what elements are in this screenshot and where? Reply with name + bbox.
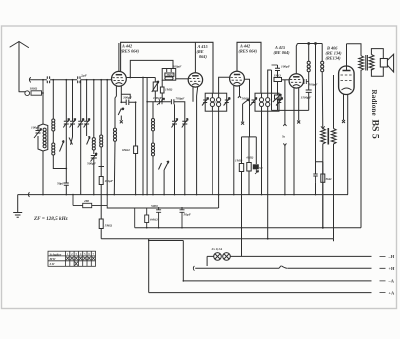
variable capacitor 4 xyxy=(84,80,90,136)
svg-text:500pF: 500pF xyxy=(87,162,97,166)
svg-text:500pF: 500pF xyxy=(309,83,319,87)
svg-text:700pF: 700pF xyxy=(176,97,186,101)
svg-text:2: 2 xyxy=(71,252,73,256)
capacitor 300pF xyxy=(121,100,135,106)
svg-text:(RE 064): (RE 064) xyxy=(274,50,291,55)
svg-text:100pF: 100pF xyxy=(31,126,41,130)
svg-text:Schalter: Schalter xyxy=(50,252,62,256)
svg-text:–A: –A xyxy=(388,279,395,284)
x mark V1 lead xyxy=(120,116,123,124)
svg-text:0,1μF: 0,1μF xyxy=(105,179,114,183)
text labels xyxy=(121,44,343,61)
LC loop left branch trimmer cap xyxy=(34,124,43,151)
jack col284 xyxy=(283,80,286,126)
feed col248 to bracket xyxy=(244,79,249,137)
trimmer cap 500pF xyxy=(91,153,97,195)
svg-text:(RE134): (RE134) xyxy=(326,56,342,61)
svg-text:2x 0,1A: 2x 0,1A xyxy=(211,247,223,251)
tube V2 envelope xyxy=(188,73,202,87)
battery line2 xyxy=(195,267,371,269)
svg-text:Radione: Radione xyxy=(370,90,378,116)
lamp 1 xyxy=(214,253,222,261)
IFT1 coils xyxy=(212,93,218,111)
IFT1 outer frame xyxy=(205,93,227,111)
svg-text:5: 5 xyxy=(84,252,86,256)
svg-text:100pF: 100pF xyxy=(281,65,291,69)
svg-text:1500pF: 1500pF xyxy=(301,96,312,100)
rail connector xyxy=(28,192,29,197)
output tube internals xyxy=(343,70,351,72)
tube V1 internals xyxy=(116,74,122,76)
variable cap V2 area 1 xyxy=(172,104,178,194)
trimmer row wire xyxy=(147,78,171,195)
svg-text:4: 4 xyxy=(80,252,82,256)
ground drop xyxy=(17,195,19,212)
variable cap V2 area 2 xyxy=(182,119,188,128)
resistor 3Mohm box xyxy=(165,73,174,76)
wire col135 xyxy=(135,102,137,146)
svg-text:+A: +A xyxy=(389,290,396,295)
table text xyxy=(49,252,62,266)
table X marks row3 xyxy=(75,262,78,266)
choke coil col324 xyxy=(321,44,324,129)
box rail A442/A415 xyxy=(121,42,213,93)
V3 cathode leads xyxy=(233,86,235,195)
output tube cathode leads xyxy=(342,95,345,124)
output transformer core xyxy=(366,55,368,71)
resistor 180ohm xyxy=(31,91,42,95)
lamp drop col241 xyxy=(241,195,243,257)
bottom bus xyxy=(101,239,333,242)
lamp feeder wire xyxy=(149,240,184,242)
svg-text:(RES 064): (RES 064) xyxy=(121,49,140,54)
IFT2 coils xyxy=(262,93,268,111)
pot with arrow V4 xyxy=(275,95,282,99)
tube V4 internals xyxy=(293,76,299,78)
coil col94 600 xyxy=(93,80,95,154)
resistor 64k box xyxy=(146,208,148,215)
bus drop to line4 xyxy=(148,239,150,293)
cap 200pF inside xyxy=(167,69,172,73)
node connector left xyxy=(29,78,30,83)
battery line1 xyxy=(207,256,371,266)
resistor box lower xyxy=(165,77,173,80)
terminal labels xyxy=(388,254,396,295)
wire vertical col43 xyxy=(42,93,44,124)
cap+resistor parallel RC xyxy=(313,174,317,182)
antenna connector xyxy=(25,91,30,96)
speaker driver xyxy=(380,59,387,68)
interstage transformer core xyxy=(327,128,329,145)
IFT2 trimmer right xyxy=(276,98,283,106)
V2 grid top feed wire xyxy=(130,60,173,77)
svg-text:5000: 5000 xyxy=(242,96,249,100)
tube V4 envelope xyxy=(289,74,303,88)
svg-text:6: 6 xyxy=(88,252,90,256)
V4 left chain cap 100pF xyxy=(272,65,281,110)
resistor 65k box xyxy=(134,146,138,154)
x mark V3 jack lead xyxy=(241,104,244,125)
output tube B406 envelope xyxy=(339,66,355,95)
feeder drop to line3 xyxy=(182,241,184,281)
tube V3 internals xyxy=(234,74,240,76)
switch arrow mid2 xyxy=(159,161,169,195)
IFT1 trimmer left xyxy=(202,98,209,106)
line2 connector xyxy=(193,266,194,271)
wire col107 xyxy=(106,80,108,195)
V2 cathode leads xyxy=(193,87,198,195)
coil col153 upper 600 xyxy=(152,102,154,119)
tube V2 plate lead xyxy=(194,42,196,73)
resistor 1Mohm xyxy=(239,164,243,172)
svg-text:1MΩ: 1MΩ xyxy=(165,88,173,92)
svg-text:1MΩ: 1MΩ xyxy=(235,159,243,163)
secondary loop to speaker xyxy=(371,49,383,77)
svg-text:1: 1 xyxy=(67,252,69,256)
svg-text:064): 064) xyxy=(199,54,207,59)
svg-text:–H: –H xyxy=(388,254,395,259)
svg-text:7: 7 xyxy=(93,252,95,256)
output tube anode lead xyxy=(346,44,348,71)
capacitor 2uF xyxy=(78,77,80,83)
resistor 4Mohm xyxy=(248,137,250,163)
ground symbol xyxy=(13,213,22,218)
svg-text:64kΩ: 64kΩ xyxy=(150,218,158,222)
svg-text:4MΩ: 4MΩ xyxy=(245,156,254,160)
switch arrow right block xyxy=(87,137,90,145)
resistor box 5Mohm xyxy=(99,219,103,229)
cap 700pF series xyxy=(171,99,184,194)
choke coil col308 xyxy=(308,44,310,91)
junction tick col101 xyxy=(99,151,105,167)
V4 plate lead xyxy=(296,44,297,74)
output transformer secondary xyxy=(369,55,374,71)
resistor 280 xyxy=(73,205,83,207)
tube V2 internals xyxy=(192,75,198,77)
variable capacitor 3 xyxy=(78,80,84,195)
resistor 1Mohm box xyxy=(161,80,163,87)
IFT1 bottom leads xyxy=(211,111,213,194)
V1 cathode leads xyxy=(115,86,116,128)
variable capacitor 2 xyxy=(70,80,76,137)
wire y110 xyxy=(272,109,309,111)
V2 grid RC loop xyxy=(162,69,176,81)
svg-text:ZF = 128,5 kHz: ZF = 128,5 kHz xyxy=(33,216,68,222)
tube V3 envelope xyxy=(230,71,245,86)
svg-text:50: 50 xyxy=(259,166,263,170)
wire main tuning line xyxy=(31,79,112,81)
anode top loop xyxy=(347,44,362,56)
svg-text:200pF: 200pF xyxy=(172,64,183,68)
speaker horn xyxy=(387,54,393,72)
svg-text:1MΩ: 1MΩ xyxy=(274,74,282,78)
variable capacitor 1 xyxy=(63,80,69,169)
line2 switch xyxy=(279,266,287,269)
cap 500pF right of V4 xyxy=(304,79,309,84)
wire 300pF row xyxy=(121,94,130,99)
IFT2 trimmer left xyxy=(250,98,256,106)
svg-text:LW: LW xyxy=(49,262,56,266)
cap 50pF small xyxy=(64,169,69,195)
svg-text:5000: 5000 xyxy=(151,204,158,208)
battery line4 xyxy=(149,292,372,294)
resistor 1Mohm horizontal xyxy=(274,78,282,82)
switch arrow left block xyxy=(60,141,65,152)
svg-text:50pF: 50pF xyxy=(57,182,65,186)
resistor box 0.1uF xyxy=(100,167,102,177)
svg-text:MW: MW xyxy=(49,257,57,261)
switch table outer xyxy=(48,251,96,266)
coil col53 lower 600 xyxy=(53,131,66,169)
svg-text:180Ω: 180Ω xyxy=(30,87,38,91)
arrowheads xyxy=(39,81,282,173)
rail y227 xyxy=(135,227,361,229)
switch arrow mid xyxy=(69,137,73,145)
antenna xyxy=(10,42,29,92)
rail y208 xyxy=(107,195,218,208)
IFT2 right top lead xyxy=(268,70,272,93)
B406 supply rail xyxy=(298,43,323,45)
interstage transformer left winding xyxy=(321,129,326,228)
wire RC to V2 grid xyxy=(176,78,189,80)
svg-text:2μF: 2μF xyxy=(80,74,88,78)
svg-text:+H: +H xyxy=(389,266,396,271)
cap 5000 xyxy=(156,208,161,228)
svg-text:300pF: 300pF xyxy=(122,96,133,100)
IFT2 bottom leads xyxy=(262,111,268,239)
svg-text:5a: 5a xyxy=(282,135,286,139)
coil col101 600 xyxy=(100,80,102,151)
trimmer cap 100pF xyxy=(157,98,165,105)
IFT1 trimmer right xyxy=(224,98,231,106)
svg-text:5kΩ: 5kΩ xyxy=(326,177,332,181)
wire V1 right xyxy=(126,78,155,195)
jack below V3 xyxy=(238,86,241,98)
tube V3 plate lead + box xyxy=(237,42,261,93)
terminal dashes xyxy=(380,256,386,292)
coil col153 lower 600 xyxy=(152,156,154,195)
tube V1 A442 envelope xyxy=(112,71,127,86)
svg-text:50pF: 50pF xyxy=(184,213,192,217)
LC loop right coil 0500 xyxy=(43,124,48,195)
lamp 2 xyxy=(223,253,231,261)
battery line3 xyxy=(183,280,371,282)
IFT1 right top lead to V3 xyxy=(219,77,230,93)
svg-text:280: 280 xyxy=(83,199,89,203)
output transformer primary xyxy=(359,56,364,228)
V1 plate lead xyxy=(118,43,120,71)
switch below V1 xyxy=(118,108,124,115)
pot with arrow xyxy=(153,82,157,91)
table X marks row2 xyxy=(66,257,95,260)
Y contact transformer top xyxy=(321,126,325,129)
svg-text:100pF: 100pF xyxy=(153,96,163,100)
svg-text:BS 5: BS 5 xyxy=(370,120,381,139)
svg-text:(RES 064): (RES 064) xyxy=(239,49,258,54)
IFT2 outer frame xyxy=(255,93,279,111)
cap 1500pF xyxy=(306,90,312,110)
interstage transformer right winding xyxy=(331,129,336,239)
svg-text:3: 3 xyxy=(75,252,77,256)
electrolytic cap small xyxy=(253,165,258,169)
junction dots supply xyxy=(308,43,310,45)
cap 50pF bottom xyxy=(180,208,185,228)
bracket resistors xyxy=(242,137,257,164)
svg-text:5MΩ: 5MΩ xyxy=(105,224,113,228)
svg-text:65kΩ: 65kΩ xyxy=(122,148,130,152)
capacitor series 1 xyxy=(47,77,49,83)
coil col53 upper 600 xyxy=(52,80,54,119)
tube V4 grid lead xyxy=(282,79,290,81)
ground rail xyxy=(18,194,348,196)
wire col315 RC branch xyxy=(316,44,323,195)
svg-text:3MΩ: 3MΩ xyxy=(166,74,174,77)
V4 cathode leads xyxy=(293,88,295,195)
coil col115 600 xyxy=(113,142,116,195)
